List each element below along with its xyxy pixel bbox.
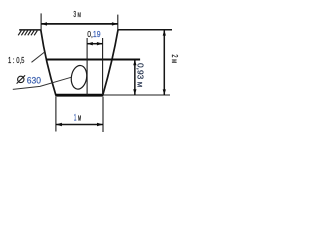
- svg-text:2 м: 2 м: [170, 54, 180, 63]
- ground line left: [19, 29, 41, 31]
- dim 0,93m line: [134, 60, 136, 96]
- diameter symbol: [17, 75, 26, 83]
- dim 0,19 extension right: [102, 38, 104, 95]
- dim 1m extension right: [102, 97, 104, 132]
- svg-text:3 м: 3 м: [73, 9, 81, 19]
- dim 2m line: [163, 30, 165, 95]
- dim 0,19 extension left: [86, 38, 88, 95]
- pipe ellipse: [70, 64, 89, 90]
- svg-text:630: 630: [27, 76, 41, 87]
- svg-text:1 м: 1 м: [74, 112, 81, 122]
- ground hatching left: [18, 31, 37, 36]
- dim 3m extension left: [40, 13, 42, 30]
- dim 3m arrow right: [112, 22, 118, 25]
- ground line right: [118, 29, 172, 31]
- leader line for slope label: [32, 52, 45, 62]
- bottom extension to right for dims: [103, 94, 170, 96]
- svg-text:0,19: 0,19: [87, 29, 101, 39]
- dim 1m arrow right: [97, 123, 103, 126]
- dim 0,19 line: [87, 43, 103, 45]
- trench right slope wall: [103, 30, 118, 95]
- dim 3m arrow left: [41, 22, 47, 25]
- trench bottom (thick): [55, 94, 103, 97]
- dim 0,19 arrow right: [97, 42, 103, 45]
- trench left slope wall: [41, 30, 56, 95]
- dim 0,93m arrow bottom: [133, 89, 136, 95]
- dim 1m arrow left: [56, 123, 62, 126]
- dim 1m line: [56, 124, 103, 126]
- leader line for diameter label: [13, 77, 72, 89]
- svg-text:0,93 м: 0,93 м: [135, 63, 145, 88]
- dim 2m arrow bottom: [163, 89, 166, 95]
- dim 0,93m arrow top: [133, 60, 136, 66]
- dim 3m extension right: [117, 15, 119, 31]
- dim 0,19 arrow left: [87, 42, 93, 45]
- water level line: [46, 59, 140, 61]
- svg-text:1 : 0,5: 1 : 0,5: [8, 55, 25, 65]
- dim 3m line: [41, 23, 118, 25]
- dim 2m arrow top: [163, 30, 166, 36]
- dim 1m extension left: [55, 97, 57, 132]
